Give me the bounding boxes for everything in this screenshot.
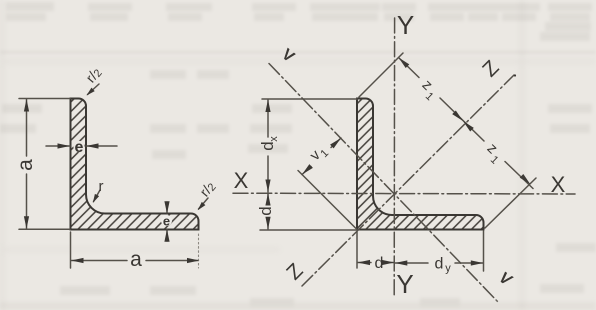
X axis (233, 192, 575, 195)
label d (left) (256, 206, 275, 215)
svg-text:e: e (163, 214, 170, 229)
extension line for z1 (from top corner) (359, 53, 403, 97)
svg-text:X: X (551, 172, 566, 197)
dimension e (vertical leg) (46, 145, 117, 147)
svg-text:X: X (234, 168, 249, 193)
svg-text:Y: Y (397, 10, 414, 40)
svg-text:Y: Y (396, 269, 413, 299)
label z1 (upper) (415, 76, 442, 103)
Y axis (393, 18, 395, 295)
dimension d (left, bottom) (260, 193, 357, 230)
svg-text:d: d (435, 256, 444, 273)
dimension d_x (left, top) (262, 99, 357, 192)
svg-text:a: a (130, 248, 142, 271)
leader r/2 (right toe) (199, 198, 209, 209)
dimension a (left vertical) (19, 99, 70, 230)
dimension a (bottom) (71, 232, 199, 268)
Z axis (302, 75, 514, 286)
label v1 (307, 142, 332, 167)
svg-text:x: x (268, 136, 280, 142)
leader r/2 (top toe) (88, 84, 100, 95)
dimension e (bottom leg) (166, 202, 168, 241)
svg-text:r: r (99, 178, 104, 195)
svg-text:a: a (14, 159, 37, 171)
V axis (269, 64, 498, 303)
extension line through corner (for v1) (298, 171, 357, 230)
angle profile (right view) (357, 99, 484, 230)
dimension z1 (399, 58, 534, 189)
svg-text:y: y (445, 263, 451, 275)
label d_x (258, 136, 280, 151)
faint paper texture streaks (0, 302, 596, 310)
dimension v1 (302, 138, 341, 175)
leader r (inner fillet) (94, 190, 101, 202)
svg-text:d: d (256, 206, 275, 215)
extension line for z1 (from bottom-right toe) (485, 178, 536, 228)
label z1 (lower) (480, 140, 507, 167)
dimension d (bottom) (357, 232, 394, 268)
svg-text:e: e (75, 139, 84, 156)
dimension d_y (bottom) (395, 231, 484, 271)
svg-text:d: d (375, 255, 384, 272)
angle profile (left view) (71, 99, 199, 230)
